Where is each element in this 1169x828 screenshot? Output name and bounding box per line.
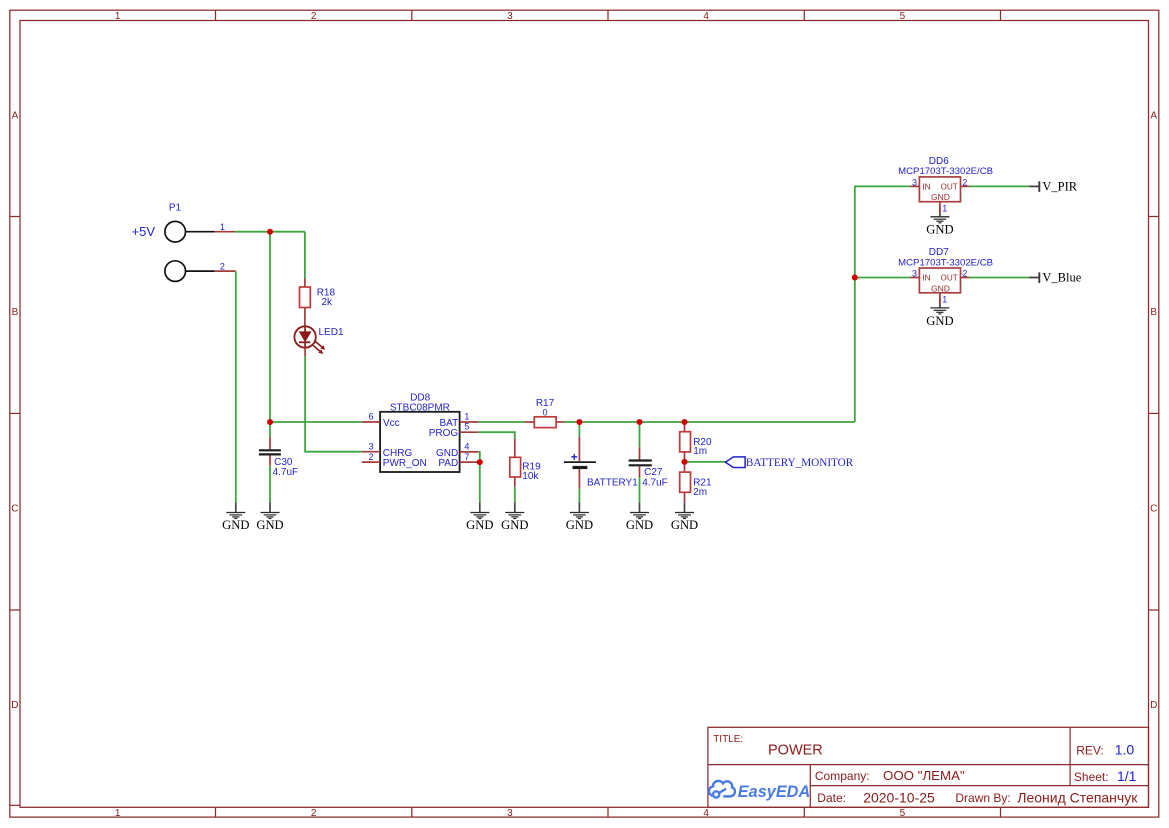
svg-text:C: C [1150, 503, 1157, 514]
LED LED1 [294, 326, 344, 356]
junction battery [576, 419, 582, 425]
svg-text:V_PIR: V_PIR [1042, 179, 1077, 193]
svg-text:1: 1 [115, 11, 121, 22]
wire to DD7 [855, 277, 911, 279]
capacitor C27 [629, 447, 668, 488]
net flag BATTERY_MONITOR [725, 457, 853, 469]
svg-text:GND: GND [671, 518, 698, 532]
svg-text:OUT: OUT [941, 183, 958, 192]
svg-text:B: B [1150, 307, 1157, 318]
wire junction down to Vcc rail [269, 232, 271, 422]
svg-text:2020-10-25: 2020-10-25 [863, 789, 935, 805]
svg-text:B: B [12, 307, 19, 318]
DD7 ground symbol [930, 298, 949, 314]
DD7 pin 1 [939, 293, 941, 305]
svg-text:TITLE:: TITLE: [713, 734, 743, 745]
svg-text:Sheet:: Sheet: [1074, 770, 1109, 784]
wire rail up to DD6 [855, 186, 911, 422]
svg-text:4: 4 [703, 808, 709, 819]
wire to C27 [639, 422, 641, 447]
DD6 pin 2 [961, 185, 970, 187]
junction DD7 branch [852, 275, 858, 281]
svg-text:6: 6 [368, 411, 373, 421]
ground C27 [630, 502, 649, 518]
svg-text:+: + [571, 450, 578, 464]
regulator DD6 MCP1703T-3302E/CB [898, 156, 993, 202]
svg-text:Vcc: Vcc [383, 418, 400, 429]
svg-text:A: A [1150, 111, 1157, 122]
wire R17 to rail right [565, 421, 855, 423]
svg-text:PROG: PROG [429, 428, 459, 439]
svg-text:GND: GND [626, 518, 653, 532]
svg-text:BATTERY_MONITOR: BATTERY_MONITOR [746, 457, 854, 469]
svg-text:4: 4 [464, 442, 469, 452]
wire C30 to GND [269, 466, 271, 503]
svg-text:IN: IN [922, 182, 931, 192]
svg-text:2: 2 [311, 808, 317, 819]
svg-text:D: D [11, 700, 18, 711]
svg-text:2: 2 [311, 11, 317, 22]
svg-text:OUT: OUT [941, 274, 958, 283]
DD7 pin 2 [961, 277, 970, 279]
svg-text:1: 1 [464, 411, 469, 421]
DD8 pin 6 Vcc [362, 421, 380, 423]
wire LED1 to CHRG [305, 356, 362, 451]
svg-text:4.7uF: 4.7uF [642, 477, 668, 488]
frame row labels right [1150, 111, 1157, 712]
svg-text:2: 2 [220, 261, 225, 271]
resistor R17 [525, 398, 565, 428]
svg-text:4: 4 [703, 11, 709, 22]
junction PAD [477, 459, 483, 465]
wire battery to GND [578, 489, 580, 503]
frame row labels left [11, 111, 18, 712]
svg-text:1: 1 [220, 222, 225, 232]
svg-text:Drawn By:: Drawn By: [955, 791, 1010, 805]
svg-text:A: A [12, 111, 19, 122]
net port V_PIR [1029, 179, 1077, 193]
DD6 ground symbol [930, 207, 949, 223]
svg-text:GND: GND [931, 192, 950, 202]
net port V_Blue [1029, 270, 1081, 284]
DD8 pin 3 CHRG [362, 451, 380, 453]
DD8 pin 7 PAD [460, 461, 479, 463]
svg-text:C: C [11, 503, 18, 514]
ground C30 [261, 502, 280, 518]
ground R21 [675, 502, 694, 518]
ground battery [570, 502, 589, 518]
svg-text:3: 3 [912, 177, 917, 187]
DD8 pin 2 PWR_ON [362, 461, 380, 463]
P1 pin 2 [215, 270, 236, 272]
svg-text:D: D [1150, 700, 1157, 711]
ground P1 pin2 [226, 502, 245, 518]
wire PAD to GND [479, 462, 481, 502]
svg-text:GND: GND [926, 314, 953, 328]
svg-text:GND: GND [256, 518, 283, 532]
wire R18 top [304, 232, 306, 279]
svg-text:V_Blue: V_Blue [1042, 270, 1081, 284]
svg-text:IN: IN [922, 273, 931, 283]
svg-text:Date:: Date: [817, 791, 846, 805]
wire PROG to R19 [479, 432, 515, 439]
battery BATTERY1 [564, 437, 638, 489]
title texts [713, 734, 1138, 806]
svg-text:REV:: REV: [1076, 744, 1104, 758]
svg-text:PWR_ON: PWR_ON [383, 458, 427, 469]
svg-text:Company:: Company: [815, 769, 870, 783]
DD6 pin 3 [911, 185, 920, 187]
svg-text:1m: 1m [693, 446, 707, 457]
svg-text:EasyEDA: EasyEDA [738, 783, 810, 801]
svg-text:PAD: PAD [438, 458, 458, 469]
svg-text:GND: GND [466, 518, 493, 532]
junction C27 [637, 419, 643, 425]
svg-text:3: 3 [368, 442, 373, 452]
title block [708, 727, 1149, 807]
ground PAD [470, 502, 489, 518]
svg-text:ООО "ЛЕМА": ООО "ЛЕМА" [883, 768, 965, 783]
svg-text:GND: GND [566, 518, 593, 532]
svg-text:3: 3 [912, 268, 917, 278]
wire to C30 [269, 422, 271, 437]
resistor R20 [680, 422, 712, 462]
resistor R19 [510, 439, 541, 487]
DD8 pin 4 GND [460, 451, 479, 453]
svg-text:1/1: 1/1 [1117, 768, 1137, 784]
resistor R18 [300, 279, 336, 327]
junction R20 [682, 419, 688, 425]
svg-text:GND: GND [501, 518, 528, 532]
svg-text:2: 2 [962, 177, 967, 187]
svg-text:1: 1 [942, 204, 947, 214]
svg-text:2m: 2m [693, 487, 707, 498]
svg-text:+5V: +5V [132, 224, 156, 239]
wire to battery monitor flag [685, 461, 726, 463]
wire BAT to R17 [479, 421, 525, 423]
svg-text:MCP1703T-3302E/CB: MCP1703T-3302E/CB [898, 257, 993, 268]
capacitor C30 [259, 437, 298, 477]
P1 pin 1 [215, 231, 236, 233]
svg-text:5: 5 [900, 808, 906, 819]
svg-text:LED1: LED1 [319, 327, 344, 338]
wire R19 to GND [514, 487, 516, 503]
svg-text:2k: 2k [322, 297, 334, 308]
svg-text:3: 3 [507, 808, 513, 819]
svg-text:Леонид Степанчук: Леонид Степанчук [1017, 789, 1138, 805]
svg-text:POWER: POWER [768, 743, 823, 759]
resistor R21 [680, 462, 712, 502]
DD6 pin 1 [939, 202, 941, 214]
ground R19 [505, 502, 524, 518]
svg-text:GND: GND [926, 223, 953, 237]
svg-text:GND: GND [931, 283, 950, 293]
svg-text:1.0: 1.0 [1115, 742, 1135, 758]
junction battery monitor [682, 459, 688, 465]
wire C27 to GND [639, 477, 641, 502]
frame column labels bottom [115, 808, 906, 819]
wire pin1 to R18 column [235, 231, 305, 233]
svg-text:2: 2 [962, 268, 967, 278]
svg-text:P1: P1 [169, 202, 182, 213]
wire pin4 elbow to pin7 junction [479, 452, 480, 462]
svg-text:1: 1 [115, 808, 121, 819]
svg-text:3: 3 [507, 11, 513, 22]
EasyEDA logo [709, 781, 810, 801]
svg-text:GND: GND [222, 518, 249, 532]
wire pin2 down to GND [235, 271, 237, 502]
IC DD8 STBC08PMR [380, 393, 460, 472]
DD7 pin 3 [911, 277, 920, 279]
DD8 pin 1 BAT [460, 421, 479, 423]
svg-text:2: 2 [368, 452, 373, 462]
svg-text:10k: 10k [522, 471, 539, 482]
svg-text:MCP1703T-3302E/CB: MCP1703T-3302E/CB [898, 166, 993, 177]
DD8 pin 5 PROG [460, 431, 479, 433]
svg-text:BATTERY1: BATTERY1 [587, 477, 638, 488]
svg-text:4.7uF: 4.7uF [273, 467, 299, 478]
svg-text:7: 7 [464, 452, 469, 462]
junction Vcc rail [267, 419, 273, 425]
frame column labels top [115, 11, 906, 22]
junction pin1 [267, 229, 273, 235]
wire DD7 out [969, 277, 1029, 279]
wire DD6 out [969, 185, 1029, 187]
title values blue [1115, 742, 1137, 784]
svg-text:1: 1 [942, 295, 947, 305]
svg-text:5: 5 [900, 11, 906, 22]
regulator DD7 MCP1703T-3302E/CB [898, 247, 993, 293]
wire Vcc rail [270, 421, 362, 423]
svg-text:5: 5 [464, 422, 469, 432]
connector P1 [165, 202, 215, 281]
wire to battery [578, 422, 580, 437]
